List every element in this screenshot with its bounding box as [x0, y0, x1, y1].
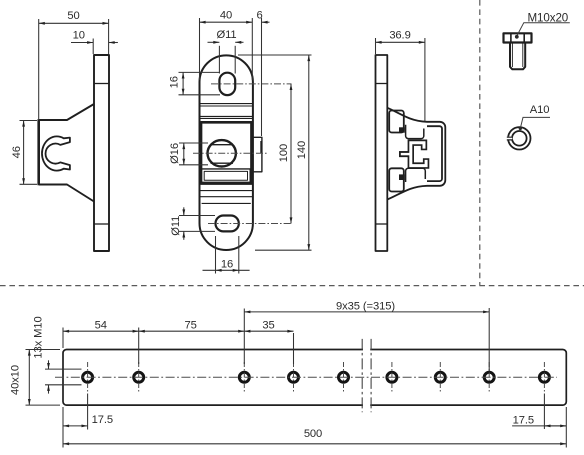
dim 16 bottom line	[216, 269, 239, 271]
dim 10 line right segment	[109, 42, 118, 44]
svg-text:35: 35	[262, 319, 274, 331]
right view lower tab	[389, 168, 404, 191]
middle view rib lines	[200, 104, 253, 204]
svg-text:17.5: 17.5	[513, 415, 534, 427]
ext hole4 up	[293, 333, 295, 364]
hole 9 centerline	[543, 362, 545, 393]
right view dimensions	[376, 38, 425, 121]
dim 9x35 line	[244, 311, 489, 313]
svg-text:500: 500	[304, 428, 322, 440]
svg-text:Ø11: Ø11	[170, 216, 182, 236]
right view upper cavity	[406, 125, 424, 139]
svg-text:46: 46	[11, 146, 23, 158]
bolt head	[504, 33, 532, 42]
svg-text:Ø16: Ø16	[169, 143, 181, 164]
hole 6	[387, 372, 397, 382]
svg-text:40x10: 40x10	[10, 365, 22, 395]
right view plate	[376, 55, 388, 251]
dim 10 line left segment	[71, 42, 93, 44]
dim 40/6 extension shared	[251, 18, 253, 80]
middle view window inner	[204, 171, 247, 180]
hole 1 centerline	[87, 362, 89, 393]
svg-text:140: 140	[296, 141, 308, 159]
rail dimensions	[26, 308, 567, 448]
svg-text:9x35 (=315): 9x35 (=315)	[336, 300, 395, 312]
dim Ø16 extension lower	[179, 164, 208, 166]
dim 50 extension right	[108, 19, 110, 54]
right view plate divider top	[376, 83, 388, 85]
rail centerline horizontal	[55, 376, 557, 378]
svg-text:36.9: 36.9	[389, 29, 410, 41]
hole 7	[435, 372, 445, 382]
centerline top hole horizontal	[211, 83, 292, 85]
washer split lines	[507, 137, 513, 140]
bolt shaft	[510, 43, 525, 70]
svg-text:6: 6	[256, 10, 262, 22]
washer split mask	[506, 137, 512, 141]
hole 4	[289, 372, 299, 382]
hole 6 centerline	[391, 362, 393, 393]
right view clip outline top	[387, 108, 445, 200]
bolt leader dot	[515, 35, 519, 39]
washer leader dot	[519, 127, 522, 130]
dim 75 line	[139, 330, 245, 332]
svg-text:17.5: 17.5	[92, 414, 113, 426]
middle view right tab	[253, 137, 262, 172]
middle view top slot hole Ø11	[219, 73, 235, 95]
dim Ø11 top line left segment	[208, 41, 220, 43]
hole 2 centerline	[138, 362, 140, 393]
dim 140 extension bottom	[255, 249, 312, 251]
middle view dimensions	[179, 18, 312, 274]
dim 16 top extension upper	[179, 71, 221, 73]
rail break gap mask	[363, 347, 370, 408]
left view body left face (thick)	[37, 119, 40, 185]
right view E tongue (white core)	[401, 153, 411, 155]
left view flange plate	[94, 55, 109, 251]
dim 13xM10 extension lower	[45, 384, 82, 386]
ext hole3 up	[243, 309, 245, 365]
hole 5 centerline	[343, 362, 345, 393]
break line left	[361, 339, 363, 412]
middle view central frame (thick)	[201, 122, 252, 183]
right view upper tab weld mark	[399, 127, 405, 132]
dim 35 line	[244, 330, 293, 332]
dim 16 top extension lower	[179, 94, 221, 96]
ext rail left edge up	[62, 328, 64, 349]
ext hole2 up	[138, 328, 140, 365]
right view lower tab weld mark	[399, 174, 405, 180]
dim Ø11 top line right segment	[235, 41, 243, 43]
dim 17.5 left line	[63, 425, 88, 427]
left view dimensions	[20, 19, 118, 184]
dim 13xM10 segment lower	[48, 385, 50, 394]
dim 100 line	[290, 84, 292, 224]
dim 6 line right segment	[262, 21, 270, 23]
svg-text:100: 100	[278, 144, 290, 162]
hole 8	[484, 372, 494, 382]
dim 46 line	[23, 121, 25, 185]
dim 17.5 right line	[512, 425, 566, 427]
left view C-clip	[42, 136, 70, 170]
dim Ø16 line	[183, 143, 185, 165]
dim 6 extension right	[261, 18, 263, 136]
dim Ø11 bottom extension lower	[179, 230, 215, 232]
middle view stadium outline	[200, 55, 253, 250]
ext hole1 down	[87, 394, 89, 430]
ext hole9 down	[543, 394, 545, 430]
hole 8 centerline	[488, 362, 490, 393]
washer leader	[520, 117, 550, 128]
dim 50 extension left	[38, 19, 40, 120]
middle view Ø16 hole	[208, 140, 236, 166]
left view flange divider bottom	[94, 223, 109, 225]
svg-text:40: 40	[220, 10, 232, 22]
hole 5	[339, 372, 349, 382]
bolt leader	[517, 23, 570, 37]
middle view bottom slot hole Ø11x16	[216, 216, 239, 232]
dim 140 extension top	[238, 54, 312, 56]
dim Ø11 bottom segment lower	[183, 231, 185, 239]
hole 2	[134, 372, 144, 382]
svg-text:Ø11: Ø11	[216, 29, 236, 41]
dim Ø11 bottom extension upper	[179, 215, 215, 217]
centerline mid hole horizontal	[193, 152, 267, 154]
hole 1	[83, 372, 93, 382]
right view lower cavity	[406, 168, 426, 182]
rail centerlines	[55, 376, 557, 378]
washer outer circle	[508, 127, 530, 149]
svg-text:A10: A10	[530, 104, 550, 116]
dim 50 line	[39, 22, 109, 24]
dim 36.9 extension left	[375, 38, 377, 54]
ext hole8 up	[488, 308, 490, 372]
dim 36.9 extension right	[424, 38, 426, 121]
hole 3	[239, 372, 249, 382]
right view upper tab	[389, 111, 404, 133]
dim 40x10 line	[28, 350, 30, 406]
dim 140 line	[308, 55, 310, 250]
break line right	[370, 339, 372, 412]
washer inner circle	[512, 131, 527, 146]
dim 40 line	[200, 21, 253, 23]
middle view centerlines	[193, 84, 292, 224]
right view plate divider bottom	[376, 223, 388, 225]
dim 16 bottom extension right	[238, 236, 240, 274]
dim 46 extension bottom	[20, 183, 38, 185]
separator horizontal dashed	[0, 285, 584, 287]
dim 17.5 right arrows	[544, 425, 566, 427]
centerline bottom hole horizontal	[208, 223, 292, 225]
left view body outline	[39, 104, 94, 202]
dim 16 top line	[182, 72, 184, 94]
dim 10 extension	[92, 39, 94, 55]
dim 40x10 extension top	[26, 349, 61, 351]
dim 16 bottom extension left	[215, 236, 217, 274]
dim 54 line	[63, 330, 139, 332]
svg-text:50: 50	[67, 10, 79, 22]
dim 13xM10 extension upper	[45, 368, 82, 370]
right view E sheet profile (black)	[411, 143, 426, 166]
ext rail right edge down	[565, 407, 567, 448]
svg-text:75: 75	[184, 319, 196, 331]
middle view window outer	[201, 169, 250, 182]
right view E tongue (black)	[399, 151, 412, 157]
dim Ø11 top extension right	[234, 46, 236, 74]
dim 13xM10 segment upper	[48, 360, 50, 369]
dim 40x10 extension bottom	[26, 404, 61, 406]
dim Ø16 extension upper	[179, 142, 208, 144]
dim Ø11 top extension left	[218, 46, 220, 74]
rail break lines	[362, 339, 371, 412]
svg-text:16: 16	[168, 76, 180, 88]
rail holes	[83, 372, 550, 382]
hole 3 centerline	[243, 362, 245, 393]
hole 7 centerline	[439, 362, 441, 393]
bolt head facets	[511, 33, 524, 42]
middle view Ø16 hole chords	[211, 145, 234, 164]
left view flange divider top	[94, 83, 109, 85]
dim 16 bottom line tails	[203, 269, 250, 271]
ext rail left edge down	[62, 407, 64, 448]
bolt thread lines	[512, 43, 522, 68]
svg-text:16: 16	[221, 258, 233, 270]
svg-text:54: 54	[95, 319, 107, 331]
dim 36.9 line	[376, 41, 425, 43]
dim 40 extension left	[199, 18, 201, 80]
dim Ø11 bottom segment upper	[183, 207, 185, 215]
middle view right tab thick mark	[260, 141, 262, 153]
dim 46 extension top	[20, 120, 38, 122]
dim 500 line	[63, 443, 566, 445]
separator vertical dashed	[479, 0, 481, 286]
right view box inner line	[427, 126, 442, 181]
rail outline	[63, 350, 566, 406]
hole 9	[539, 372, 549, 382]
svg-text:10: 10	[73, 30, 85, 42]
right view E sheet profile (white core)	[411, 143, 426, 166]
svg-text:M10x20: M10x20	[528, 11, 569, 24]
hole 4 centerline	[293, 362, 295, 393]
svg-text:13x M10: 13x M10	[33, 316, 45, 358]
